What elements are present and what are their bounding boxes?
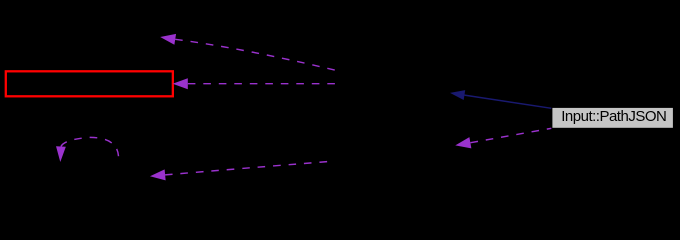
wire: inheritance edge (Input::PathJSON to base class) — [464, 95, 551, 108]
node U1: Input::PathJSON — [552, 107, 674, 128]
wire: self-loop usage edge E5 on bottom-left node — [61, 137, 119, 158]
arrowhead E3 — [150, 169, 166, 180]
wire: usage edge E1 (center node to upper-left node) — [175, 39, 336, 70]
node: truncated class box (red border) — [6, 71, 173, 96]
arrowhead E4 — [455, 137, 471, 148]
arrowhead inheritance — [450, 90, 465, 100]
arrowhead E2 — [173, 78, 188, 89]
arrowhead E5 — [56, 146, 66, 162]
wire: usage edge E4 (Input::PathJSON to lower node) — [471, 128, 552, 142]
wire: usage edge E2 (center node to red node) — [188, 83, 336, 85]
arrowhead E1 — [160, 34, 176, 45]
wire: usage edge E3 (lower node to bottom-left node) — [165, 162, 329, 175]
svg-text:Input::PathJSON: Input::PathJSON — [561, 108, 666, 125]
